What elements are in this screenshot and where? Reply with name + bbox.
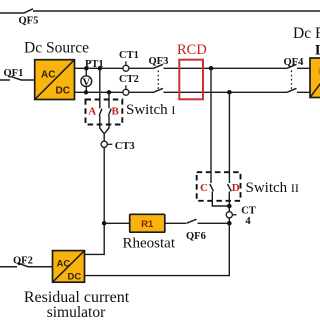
svg-text:QF4: QF4 bbox=[284, 57, 305, 68]
wire voltmeter tap bbox=[85, 68, 87, 92]
svg-text:L: L bbox=[315, 43, 320, 59]
wire QF2 to simulator bbox=[28, 266, 53, 268]
wire switch B lower bbox=[104, 116, 109, 134]
node voltmeter on bus2 bbox=[84, 90, 88, 94]
wire bus1 positive bbox=[75, 67, 311, 69]
wire top feeder line right of QF5 bbox=[33, 10, 320, 12]
svg-text:V: V bbox=[83, 77, 91, 88]
svg-text:QF6: QF6 bbox=[186, 231, 206, 242]
wire bus2 negative bbox=[75, 91, 311, 93]
breaker QF6 blade bbox=[187, 219, 197, 223]
switch B blade bbox=[108, 109, 111, 116]
resistor R1 box bbox=[130, 214, 165, 232]
switch C blade bbox=[210, 184, 214, 191]
svg-text:Dc Source: Dc Source bbox=[24, 40, 89, 57]
breaker QF4 blade lower bbox=[287, 88, 297, 92]
node voltmeter on bus1 bbox=[84, 66, 88, 70]
svg-text:R1: R1 bbox=[141, 219, 154, 230]
breaker QF1 blade bbox=[11, 76, 22, 80]
svg-text:RCD: RCD bbox=[177, 42, 207, 58]
wire switch A lower bbox=[100, 116, 104, 134]
node switch B tap on bus2 bbox=[107, 90, 111, 94]
converter U2 AC/DC (residual current simulator) bbox=[53, 251, 85, 283]
CT3 circle bbox=[101, 141, 107, 147]
wire CT4 to junction bbox=[228, 218, 230, 223]
wire QF2 input bbox=[0, 266, 17, 268]
CT1 tick bbox=[125, 61, 127, 65]
switch II dashed enclosure bbox=[197, 172, 241, 201]
wire to R1 bbox=[104, 222, 130, 224]
wire CT3 down to simulator corner bbox=[85, 147, 105, 254]
node bus1 to switch II bbox=[209, 66, 214, 71]
node bus2 to switch II bbox=[227, 90, 232, 95]
QF3 linkage dotted bbox=[157, 71, 159, 91]
svg-text:A: A bbox=[88, 105, 96, 117]
QF4 linkage dotted bbox=[291, 71, 293, 91]
wire QF1 to converter bbox=[21, 79, 35, 81]
wire switch A drop bbox=[99, 68, 101, 108]
wire drop C bbox=[210, 68, 212, 183]
voltmeter PT1 circle bbox=[81, 76, 92, 87]
breaker QF4 blade upper bbox=[287, 64, 297, 68]
svg-text:QF3: QF3 bbox=[149, 56, 169, 67]
RCD red box bbox=[179, 60, 203, 100]
svg-text:CT1: CT1 bbox=[119, 50, 139, 61]
svg-text:C: C bbox=[200, 182, 208, 194]
switch A blade bbox=[99, 109, 102, 116]
svg-text:DC: DC bbox=[56, 86, 70, 97]
svg-text:4: 4 bbox=[245, 216, 251, 227]
wire top feeder line left of QF5 bbox=[0, 12, 24, 14]
svg-text:QF1: QF1 bbox=[4, 68, 24, 79]
svg-text:CT3: CT3 bbox=[115, 141, 135, 152]
svg-text:Switch I: Switch I bbox=[126, 102, 175, 118]
node below switch II bbox=[227, 204, 232, 209]
wire CT3 stem bbox=[103, 134, 105, 142]
wire QF1 input bbox=[0, 79, 10, 81]
breaker QF3 blade upper bbox=[154, 64, 164, 68]
switch D blade bbox=[228, 184, 232, 191]
wire switch C lower bbox=[212, 192, 229, 207]
svg-text:QF2: QF2 bbox=[13, 255, 33, 266]
wire R1 to QF6 bbox=[165, 222, 186, 224]
CT4 circle bbox=[226, 212, 232, 218]
breaker QF5 blade bbox=[24, 9, 34, 13]
svg-text:Dc F: Dc F bbox=[293, 25, 320, 42]
svg-text:D: D bbox=[232, 182, 240, 194]
wire drop D bbox=[228, 92, 230, 183]
svg-text:QF5: QF5 bbox=[19, 16, 39, 27]
svg-text:Switch II: Switch II bbox=[246, 180, 299, 196]
wire QF6 to junction bbox=[198, 222, 230, 224]
svg-text:CT2: CT2 bbox=[119, 74, 139, 85]
CT1 circle bbox=[123, 65, 129, 71]
node QF6 junction bbox=[227, 221, 232, 226]
svg-text:AC: AC bbox=[57, 258, 71, 269]
CT3 tick bbox=[107, 143, 112, 145]
node switch A tap on bus1 bbox=[98, 66, 102, 70]
svg-text:B: B bbox=[112, 105, 120, 117]
switch I dashed enclosure bbox=[86, 100, 123, 125]
converter load AC/DC (clipped at right edge) bbox=[310, 58, 320, 98]
svg-text:DC: DC bbox=[68, 271, 82, 282]
CT4 tick bbox=[232, 214, 236, 216]
svg-text:Rheostat: Rheostat bbox=[123, 236, 176, 252]
breaker QF3 blade lower bbox=[154, 88, 164, 92]
svg-text:simulator: simulator bbox=[47, 304, 106, 320]
wire switch B drop bbox=[108, 92, 110, 108]
breaker QF2 blade bbox=[18, 263, 29, 267]
wire switch D lower bbox=[228, 192, 230, 212]
node rheostat tap bbox=[102, 221, 107, 226]
svg-text:AC: AC bbox=[41, 70, 55, 81]
wire down and left to simulator bbox=[85, 223, 230, 275]
converter U1 AC/DC (Dc Source) bbox=[35, 60, 75, 100]
CT2 tick bbox=[125, 85, 127, 89]
CT2 circle bbox=[123, 89, 129, 95]
